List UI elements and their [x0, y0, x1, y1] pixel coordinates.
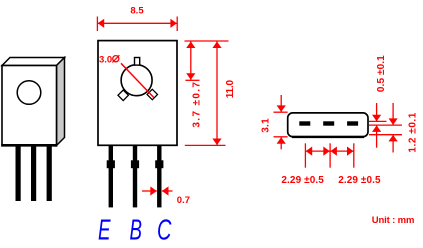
front view body: [98, 41, 177, 146]
lead cross-section bar 1: [299, 121, 310, 125]
svg-text:3.1: 3.1: [260, 118, 271, 133]
top face: [2, 58, 65, 66]
front view leg 3: [157, 146, 161, 208]
dimension 0.7 (lead width): [142, 186, 173, 195]
svg-text:2.29 ±0.5: 2.29 ±0.5: [338, 175, 381, 186]
right side ticks of side view: [369, 121, 402, 134]
svg-text:0.7: 0.7: [177, 195, 190, 206]
svg-text:B: B: [130, 214, 143, 246]
front view leg 1: [109, 146, 113, 208]
svg-text:1.2 ±0.1: 1.2 ±0.1: [408, 112, 419, 152]
dimension 11.0: [185, 42, 226, 146]
dimension 3.1 (left of side view): [274, 95, 288, 149]
dimension 1.2 +/-0.1: [389, 103, 398, 153]
svg-text:3.7 ±0.7: 3.7 ±0.7: [191, 81, 202, 128]
svg-text:11.0: 11.0: [225, 80, 236, 99]
circle on front face: [17, 81, 41, 105]
dimension 2.29 +/-0.5 (right pitch): [330, 147, 354, 156]
extension line at body top (right side): [185, 40, 229, 42]
bottom extension lines under side view: [305, 143, 353, 167]
bottom-left tab on circle: [118, 90, 128, 100]
front view circle: [121, 65, 152, 96]
top tab on circle: [135, 58, 140, 66]
svg-text:8.5: 8.5: [130, 6, 144, 17]
svg-text:C: C: [157, 214, 172, 246]
side face (shaded): [57, 58, 65, 146]
dimension 0.5 +/-0.1: [372, 103, 381, 148]
leg 1 (3D): [16, 147, 21, 202]
lead cross-section bar 3: [347, 121, 358, 125]
front face: [2, 66, 57, 146]
svg-text:E: E: [98, 214, 111, 246]
bottom-right tab on circle: [147, 89, 157, 99]
svg-text:3.0: 3.0: [99, 54, 112, 65]
svg-text:Unit : mm: Unit : mm: [372, 215, 414, 226]
lead cross-section bar 2: [323, 121, 334, 125]
dimension 2.29 +/-0.5 (left pitch): [305, 147, 330, 156]
svg-text:0.5 ±0.1: 0.5 ±0.1: [376, 55, 387, 92]
thick bottom edge of front face: [1, 144, 57, 147]
svg-text:2.29 ±0.5: 2.29 ±0.5: [281, 175, 324, 186]
leg 2 (3D): [31, 147, 36, 202]
front view leg 2: [133, 146, 137, 208]
thick bottom edge of side view: [292, 136, 364, 138]
side view body (rounded): [288, 113, 368, 137]
dimension 3.7 +/-0.7: [185, 42, 199, 81]
dimension 8.5 (top): [97, 17, 177, 32]
red diameter line through circle: [121, 63, 154, 97]
leg 3 (3D): [47, 147, 52, 202]
